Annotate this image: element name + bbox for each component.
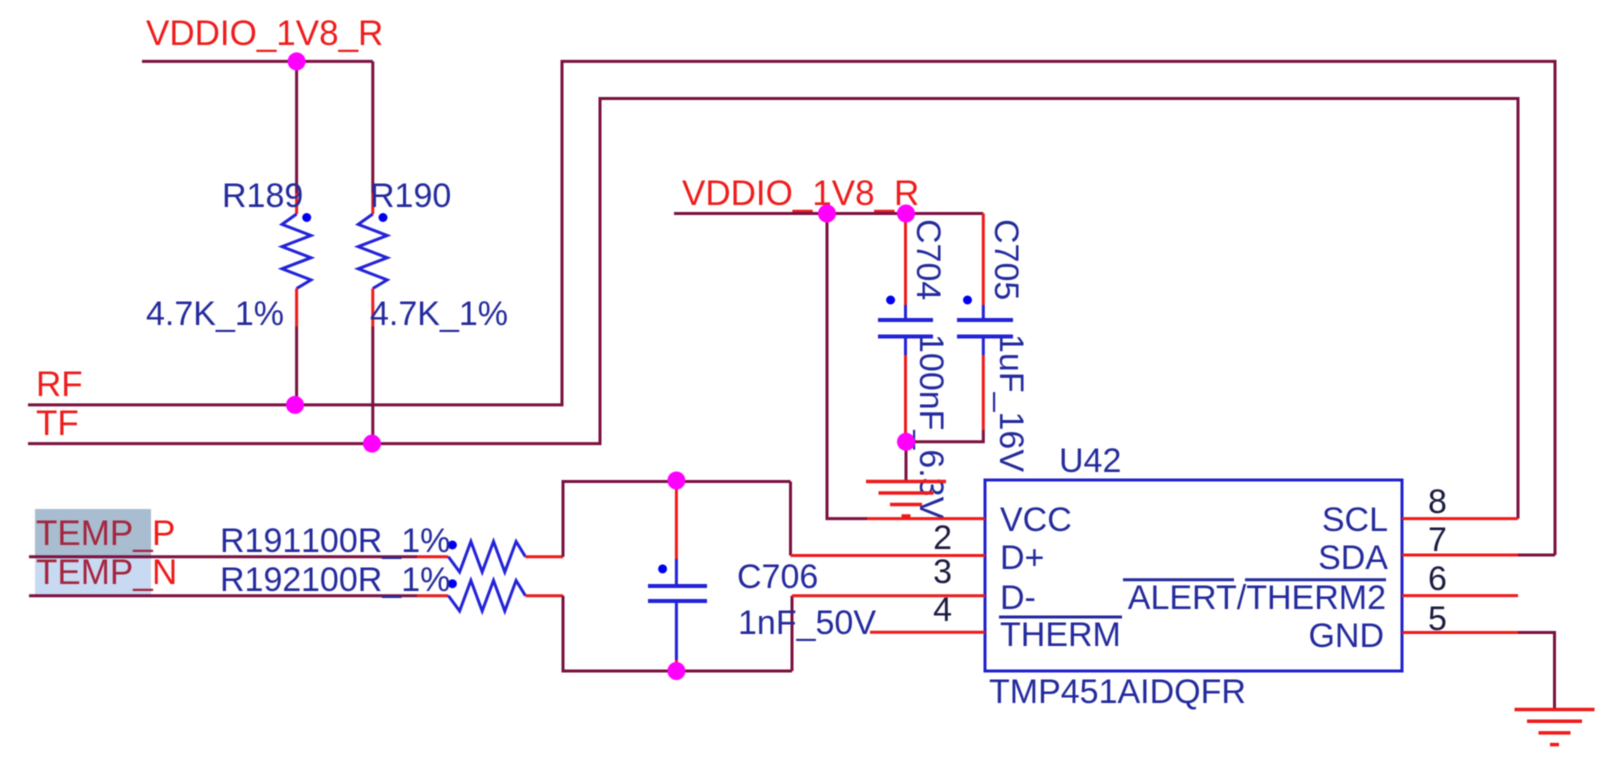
- wire TF net: [28, 99, 1518, 519]
- svg-text:4.7K_1%: 4.7K_1%: [146, 295, 284, 333]
- svg-text:R189: R189: [222, 177, 303, 215]
- IC U42 box: [985, 480, 1402, 671]
- svg-text:R190: R190: [370, 177, 451, 215]
- svg-text:VDDIO_1V8_R: VDDIO_1V8_R: [146, 14, 383, 53]
- junction C706 bottom: [667, 662, 685, 680]
- svg-text:VCC: VCC: [1000, 501, 1072, 539]
- ground symbol 2: [1515, 710, 1595, 745]
- wire D+ vertical: [789, 482, 792, 556]
- svg-text:5: 5: [1428, 600, 1447, 638]
- wire power rail top: [142, 60, 373, 63]
- junction power rail / R189: [288, 52, 306, 70]
- wire RF net: [28, 61, 1555, 555]
- svg-text:TF: TF: [36, 404, 79, 443]
- highlight TEMP_N: [35, 556, 151, 596]
- svg-text:1uF_16V: 1uF_16V: [992, 334, 1030, 472]
- svg-text:R192: R192: [220, 561, 301, 599]
- pin D+ stub: [791, 554, 986, 557]
- svg-text:U42: U42: [1059, 442, 1121, 480]
- svg-text:100R_1%: 100R_1%: [301, 522, 450, 560]
- junction VDDIO / C704: [897, 205, 915, 223]
- resistor R190: [358, 177, 508, 333]
- pin GND stub: [1402, 631, 1518, 634]
- wire C705 bottom to C704 bottom: [906, 430, 983, 442]
- svg-text:2: 2: [933, 519, 952, 557]
- junction VDDIO / VCC: [818, 205, 836, 223]
- highlight TEMP_P: [35, 509, 151, 556]
- svg-text:D-: D-: [1000, 579, 1036, 617]
- wire VCC branch: [827, 214, 867, 519]
- pin VCC stub: [867, 517, 985, 520]
- svg-text:N: N: [152, 553, 177, 592]
- wire D- vertical: [791, 596, 794, 671]
- svg-text:C706: C706: [737, 558, 818, 596]
- wire SDA corner: [1518, 554, 1555, 557]
- pin ALERT stub: [1402, 594, 1518, 597]
- pin THERM stub: [870, 631, 985, 634]
- pin D- stub: [792, 594, 985, 597]
- svg-text:1nF_50V: 1nF_50V: [738, 604, 876, 642]
- wire GND to ground: [1518, 633, 1555, 710]
- junction C706 top: [667, 472, 685, 490]
- wire VDDIO rail: [674, 212, 983, 215]
- svg-text:C705: C705: [987, 219, 1025, 300]
- svg-text:THERM: THERM: [1000, 616, 1121, 654]
- svg-text:4: 4: [933, 591, 952, 629]
- junction C704 / C705 / gnd: [897, 433, 915, 451]
- svg-text:ALERT/THERM2: ALERT/THERM2: [1128, 579, 1386, 617]
- svg-text:6: 6: [1428, 560, 1447, 598]
- svg-text:7: 7: [1428, 521, 1447, 559]
- svg-text:3: 3: [933, 553, 952, 591]
- svg-text:SCL: SCL: [1322, 501, 1388, 539]
- resistor R191: [220, 522, 563, 572]
- wire R190 top: [371, 61, 374, 193]
- svg-text:D+: D+: [1000, 539, 1044, 577]
- svg-text:SDA: SDA: [1318, 539, 1388, 577]
- svg-text:GND: GND: [1308, 617, 1384, 655]
- svg-text:TEMP_: TEMP_: [36, 514, 153, 553]
- wire R190 bottom to TF: [371, 327, 374, 444]
- pin SCL stub: [1402, 517, 1518, 520]
- wire TEMP_P: [29, 555, 417, 558]
- svg-text:C704: C704: [909, 219, 947, 300]
- capacitor C704: [878, 214, 950, 520]
- capacitor C705: [957, 214, 1030, 473]
- resistor R189: [146, 177, 311, 333]
- svg-text:4.7K_1%: 4.7K_1%: [370, 295, 508, 333]
- wire C706 left top: [563, 482, 791, 557]
- wire TEMP_N: [29, 594, 417, 597]
- junction TF / R190: [363, 435, 381, 453]
- wire R189 bottom to RF: [295, 327, 298, 405]
- ground symbol 1: [866, 482, 946, 517]
- wire to ground 1: [905, 442, 908, 482]
- svg-text:P: P: [152, 514, 175, 553]
- pin SDA stub: [1402, 554, 1518, 557]
- svg-text:VDDIO_1V8_R: VDDIO_1V8_R: [682, 174, 919, 213]
- resistor R192: [220, 561, 563, 611]
- svg-text:TEMP_: TEMP_: [36, 553, 153, 592]
- capacitor C706: [648, 482, 876, 672]
- svg-text:RF: RF: [36, 365, 83, 404]
- svg-text:100R_1%: 100R_1%: [301, 561, 450, 599]
- wire R189 top: [295, 61, 298, 193]
- svg-text:8: 8: [1428, 483, 1447, 521]
- junction RF / R189: [286, 396, 304, 414]
- wire C706 left bottom: [563, 596, 792, 671]
- svg-text:TMP451AIDQFR: TMP451AIDQFR: [989, 673, 1246, 711]
- svg-text:R191: R191: [220, 522, 301, 560]
